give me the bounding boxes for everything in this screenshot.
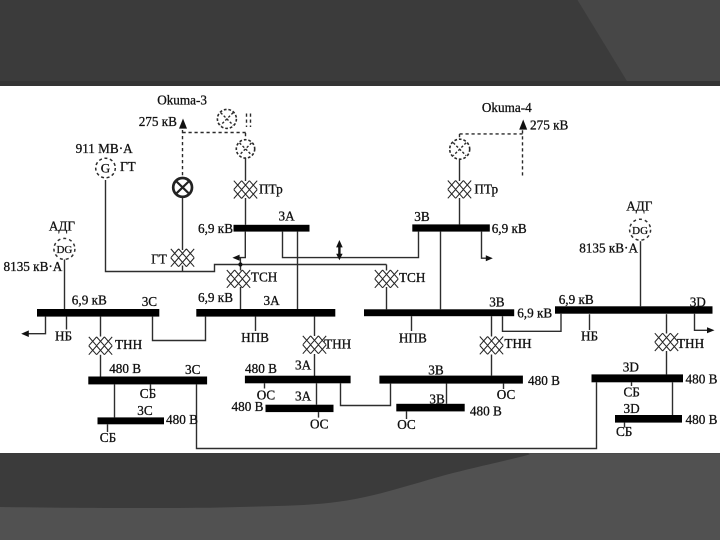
svg-text:3С: 3С <box>137 403 153 418</box>
svg-text:СБ: СБ <box>624 385 640 400</box>
svg-text:ТСН: ТСН <box>399 270 426 285</box>
svg-text:3А: 3А <box>279 209 296 224</box>
svg-text:6,9 кВ: 6,9 кВ <box>517 305 552 320</box>
svg-text:3А: 3А <box>295 388 312 403</box>
svg-text:3D: 3D <box>623 360 639 375</box>
svg-text:480 В: 480 В <box>232 399 264 414</box>
svg-text:3D: 3D <box>624 401 640 416</box>
svg-text:275 кВ: 275 кВ <box>139 114 177 129</box>
svg-text:8135 кВ·А: 8135 кВ·А <box>579 240 638 255</box>
svg-text:480 В: 480 В <box>109 361 141 376</box>
svg-text:АДГ: АДГ <box>626 198 653 213</box>
svg-text:911 МВ·А: 911 МВ·А <box>76 141 134 156</box>
svg-text:ГТ: ГТ <box>120 159 136 174</box>
svg-text:3D: 3D <box>690 295 706 310</box>
svg-text:3В: 3В <box>414 209 430 224</box>
svg-text:8135 кВ·А: 8135 кВ·А <box>4 259 63 274</box>
svg-text:275 кВ: 275 кВ <box>530 118 568 133</box>
svg-text:ОС: ОС <box>397 417 416 432</box>
svg-text:ТНН: ТНН <box>115 337 143 352</box>
svg-text:480 В: 480 В <box>166 412 198 427</box>
svg-text:ПТр: ПТр <box>474 181 498 196</box>
svg-text:СБ: СБ <box>100 430 116 445</box>
svg-text:3А: 3А <box>295 358 312 373</box>
svg-text:АДГ: АДГ <box>49 219 76 234</box>
svg-text:6,9 кВ: 6,9 кВ <box>492 221 527 236</box>
svg-text:3В: 3В <box>489 294 505 309</box>
svg-text:480 В: 480 В <box>245 361 277 376</box>
svg-text:3С: 3С <box>185 362 201 377</box>
svg-text:6,9 кВ: 6,9 кВ <box>559 292 594 307</box>
svg-text:DG: DG <box>632 225 648 237</box>
svg-text:480 В: 480 В <box>686 412 718 427</box>
svg-text:НПВ: НПВ <box>241 330 269 345</box>
svg-text:480 В: 480 В <box>686 371 718 386</box>
svg-text:ТНН: ТНН <box>324 336 352 351</box>
svg-text:6,9 кВ: 6,9 кВ <box>198 290 233 305</box>
svg-text:3В: 3В <box>429 392 445 407</box>
svg-text:НБ: НБ <box>55 329 72 344</box>
svg-text:6,9 кВ: 6,9 кВ <box>198 221 233 236</box>
svg-text:480 В: 480 В <box>470 403 502 418</box>
svg-text:ПТр: ПТр <box>259 181 283 196</box>
svg-text:Okuma-3: Okuma-3 <box>157 93 207 108</box>
svg-text:3А: 3А <box>264 293 281 308</box>
svg-text:ТНН: ТНН <box>504 336 532 351</box>
svg-text:НБ: НБ <box>581 329 598 344</box>
svg-text:ТНН: ТНН <box>677 336 705 351</box>
svg-text:3В: 3В <box>428 363 444 378</box>
svg-text:ОС: ОС <box>310 416 329 431</box>
svg-text:ТСН: ТСН <box>251 269 278 284</box>
svg-text:СБ: СБ <box>616 424 632 439</box>
svg-text:Okuma-4: Okuma-4 <box>482 100 532 115</box>
svg-text:DG: DG <box>56 244 72 256</box>
svg-text:СБ: СБ <box>140 386 156 401</box>
svg-text:480 В: 480 В <box>528 373 560 388</box>
svg-text:G: G <box>101 161 110 176</box>
svg-text:ОС: ОС <box>497 387 516 402</box>
svg-text:3С: 3С <box>142 294 158 309</box>
svg-text:НПВ: НПВ <box>399 331 427 346</box>
svg-text:6,9 кВ: 6,9 кВ <box>72 293 107 308</box>
svg-text:ГТ: ГТ <box>151 251 167 266</box>
